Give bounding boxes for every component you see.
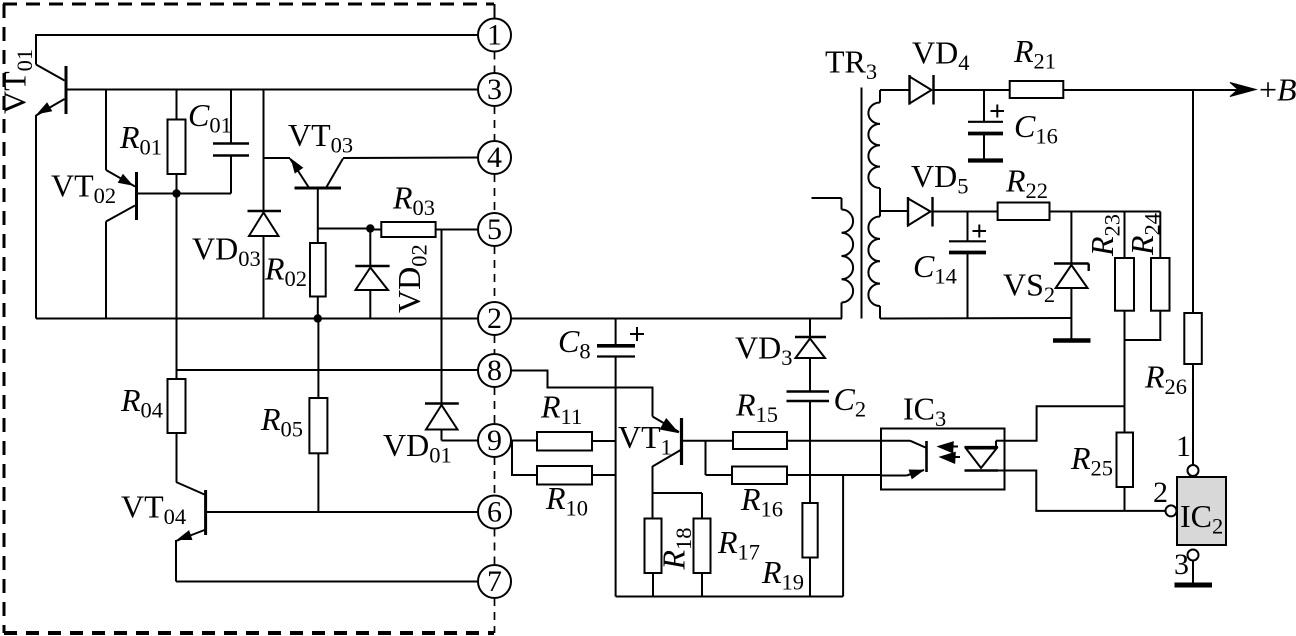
svg-text:2: 2	[1153, 476, 1168, 509]
wire from dashed-box corner to pin 1	[494, 4, 496, 19]
resistor R10	[537, 466, 592, 485]
resistor R21	[1010, 81, 1064, 98]
svg-text:VD02: VD02	[391, 244, 432, 313]
svg-text:TR3: TR3	[825, 44, 877, 85]
svg-text:6: 6	[487, 496, 502, 529]
svg-text:R22: R22	[1005, 163, 1048, 204]
IC3 phototransistor	[881, 440, 910, 442]
wire rail pin 2 (left)	[36, 318, 478, 320]
wire pin 9 branch to R10	[512, 441, 537, 476]
IC2 pin 1 circle	[1188, 465, 1199, 476]
pin 6 terminal circle	[478, 496, 511, 529]
pin 7 terminal circle	[478, 565, 511, 598]
resistor R03	[370, 229, 381, 231]
svg-text:R26: R26	[1144, 359, 1187, 400]
wire VD01 anode to pin 9	[442, 440, 479, 442]
IC2 pin 3 circle	[1188, 550, 1199, 561]
wire VT03 base down	[317, 188, 319, 243]
svg-text:R16: R16	[740, 481, 783, 522]
transformer primary winding	[812, 197, 842, 199]
IC2 pin 2 circle	[1166, 505, 1177, 516]
svg-text:+B: +B	[1259, 72, 1296, 108]
svg-text:1: 1	[1176, 430, 1191, 463]
svg-text:R03: R03	[392, 180, 435, 221]
wire R16 right to IC3	[787, 474, 881, 476]
capacitor C14 plus sign	[973, 230, 987, 232]
wire VT1 collector down	[652, 466, 654, 493]
wire node A down to rail 2	[176, 194, 178, 319]
label VT01	[0, 49, 37, 114]
wire rail pin 3	[66, 89, 478, 91]
svg-text:VD5: VD5	[911, 158, 968, 199]
wire VT01 emitter to rail 2	[35, 115, 37, 319]
label VD02	[391, 244, 432, 313]
wire rail pin 2 (right)	[511, 318, 842, 320]
wire collector connector	[653, 492, 703, 494]
diode VD5	[907, 197, 909, 227]
svg-text:3: 3	[487, 73, 502, 106]
resistor R01	[176, 90, 178, 120]
IC3 led	[965, 446, 999, 448]
svg-text:C16: C16	[1014, 108, 1058, 149]
transistor VT04	[176, 482, 205, 495]
svg-text:1: 1	[487, 19, 502, 52]
wire IC2 pin 3 to ground	[1192, 561, 1194, 584]
wire R11 to node	[592, 440, 616, 442]
optocoupler IC3 box	[881, 429, 1005, 490]
wire VT04 base to pin 6	[206, 511, 478, 513]
pin 9 terminal circle	[478, 424, 511, 457]
diode VD02	[369, 229, 371, 267]
svg-text:VT02: VT02	[51, 168, 116, 209]
svg-text:C8: C8	[558, 323, 591, 364]
wire R15 right to IC3	[787, 440, 881, 442]
wire pin 8 to VT1 emitter	[511, 371, 653, 417]
diode VD03	[263, 90, 265, 212]
ground under C16	[968, 158, 1003, 162]
svg-text:VD4: VD4	[912, 35, 969, 76]
svg-text:5: 5	[487, 213, 502, 246]
dashed box left border	[3, 4, 6, 633]
svg-text:VT04: VT04	[121, 489, 186, 530]
regulator IC2 box	[1177, 477, 1226, 545]
wire pin 9 to R11	[511, 440, 537, 442]
resistor R23	[1124, 212, 1126, 259]
resistor R11	[537, 432, 592, 451]
svg-text:VD3: VD3	[735, 330, 792, 371]
transformer secondary winding lower	[879, 188, 881, 217]
wire C2 to R19	[809, 441, 811, 503]
svg-text:3: 3	[1174, 548, 1189, 581]
ground under VS2	[1053, 338, 1091, 342]
pin 8 terminal circle	[478, 354, 511, 387]
transistor VT02	[105, 90, 107, 171]
resistor R19	[802, 503, 817, 558]
node B junction dot	[366, 224, 374, 232]
wire secondary bottom rail	[880, 317, 1071, 320]
ground under IC2	[1175, 583, 1213, 588]
svg-text:C01: C01	[188, 97, 232, 138]
svg-text:R24: R24	[1124, 213, 1165, 256]
svg-text:9: 9	[487, 424, 502, 457]
pin 3 terminal circle	[478, 73, 511, 106]
diode VD4	[908, 75, 910, 105]
svg-text:R02: R02	[264, 251, 307, 292]
svg-text:C2: C2	[834, 381, 867, 422]
wire VT02 base	[137, 193, 177, 195]
svg-text:R17: R17	[717, 524, 760, 565]
svg-text:R23: R23	[1084, 214, 1125, 257]
wire pin 1 to VT01 collector	[36, 35, 478, 65]
wire pin5 node down / diode VD01	[441, 230, 443, 404]
svg-text:VT03: VT03	[288, 117, 353, 158]
resistor R15	[733, 432, 787, 449]
wire R10 to node	[592, 474, 616, 476]
label R23	[1084, 214, 1125, 257]
wire R22 output	[1050, 211, 1161, 213]
pin 5 terminal circle	[478, 213, 511, 246]
dashed box right edge (through pin circles)	[494, 52, 496, 74]
transistor VT01	[65, 66, 68, 114]
wire VT03 collector to pin 4	[343, 157, 478, 160]
svg-text:R25: R25	[1070, 440, 1113, 481]
resistor R04	[176, 319, 178, 380]
node A junction dot	[172, 189, 180, 197]
svg-text:VT01: VT01	[0, 49, 37, 114]
svg-text:VS2: VS2	[1003, 267, 1055, 308]
resistor R18	[652, 493, 654, 519]
svg-text:R05: R05	[260, 401, 303, 442]
pin 4 terminal circle	[478, 141, 511, 174]
label R24	[1124, 213, 1165, 256]
zener diode VS2	[1070, 212, 1072, 264]
capacitor C16 plus sign	[991, 110, 1005, 112]
+B arrowhead	[1230, 83, 1256, 97]
resistor R17	[701, 493, 703, 519]
pin 2 terminal circle	[478, 302, 511, 335]
svg-text:R21: R21	[1013, 33, 1056, 74]
dashed box top border	[3, 3, 494, 6]
wire base to R03 node	[318, 228, 371, 230]
capacitor C16	[983, 90, 985, 122]
wire IC3 return to bottom rail	[842, 475, 844, 597]
wire R21 to +B	[1063, 89, 1247, 91]
capacitor C14	[967, 212, 969, 242]
svg-text:4: 4	[487, 141, 502, 174]
svg-text:R10: R10	[545, 480, 588, 521]
svg-text:2: 2	[487, 302, 502, 335]
node R02/R05 junction dot	[314, 314, 322, 322]
wire bottom rail	[616, 596, 844, 598]
resistor R25	[1124, 406, 1126, 432]
transformer TR3 core	[861, 88, 863, 319]
svg-text:7: 7	[487, 565, 502, 598]
wire IC3 top-right to feedback node	[1005, 406, 1125, 440]
transformer secondary winding upper	[880, 89, 910, 91]
capacitor C8 plus sign	[630, 333, 644, 335]
wire pin 7	[176, 581, 478, 583]
capacitor C8	[615, 319, 617, 346]
wire IC3 bottom-right to IC2 pin 2	[1005, 471, 1166, 511]
resistor R05	[317, 319, 319, 399]
resistor R02	[310, 243, 326, 297]
wire pin 8 (left)	[177, 369, 478, 371]
transistor VT1	[680, 418, 683, 465]
label R18	[656, 527, 697, 570]
svg-text:R01: R01	[119, 119, 162, 160]
capacitor C2	[787, 390, 830, 392]
wire VT1 base to R15/R16	[682, 440, 734, 442]
wire VD4 to R21	[984, 89, 1010, 91]
pin 1 terminal circle	[478, 19, 511, 52]
wire VT04 emitter down	[175, 540, 177, 582]
transistor VT03	[264, 157, 291, 159]
resistor R22	[998, 203, 1050, 221]
resistor R24	[1159, 212, 1161, 259]
resistor R26	[1192, 90, 1194, 313]
svg-text:IC3: IC3	[903, 391, 946, 432]
svg-text:R15: R15	[735, 387, 778, 428]
capacitor C01	[230, 90, 232, 144]
svg-text:R04: R04	[120, 382, 163, 423]
diode VD3	[809, 319, 811, 338]
svg-text:R11: R11	[540, 389, 582, 430]
dashed box bottom border	[4, 631, 494, 635]
resistor R16	[732, 467, 787, 485]
IC3 light arrows	[941, 446, 958, 448]
svg-text:R19: R19	[761, 554, 804, 595]
svg-text:8: 8	[487, 354, 502, 387]
